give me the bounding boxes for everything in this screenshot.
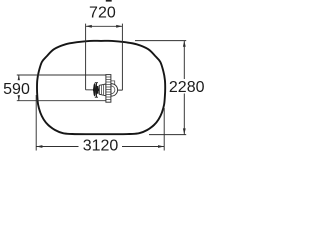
faucet bonnet line 2 [103,84,105,95]
dimension 590 text [3,80,32,95]
dimension 590 line [18,75,20,101]
extension line 2280 bottom [149,134,186,136]
extension line 3120 right [163,108,165,151]
faucet bell [111,84,118,97]
dimension 2280 line [183,41,185,135]
arrow 2280 bottom [183,128,186,134]
arrow 2280 top [183,41,186,47]
extension line 3120 left [35,95,37,151]
faucet handle stem cap top [95,82,98,84]
extension line 590 bottom [17,100,109,102]
dimension 3120 line [36,146,164,148]
faucet handle bar [93,89,99,92]
svg-text:590: 590 [3,81,30,98]
faucet handle stem [95,83,97,98]
arrow 720 right [116,25,122,28]
faucet bonnet [99,84,106,96]
faucet bonnet line 1 [100,85,102,95]
arrow 720 left [86,25,92,28]
extension line 590 top [17,74,106,76]
svg-text:2280: 2280 [169,79,205,96]
faucet threaded shank [106,75,111,103]
arrow 3120 right [158,145,164,148]
svg-text:720: 720 [89,4,116,21]
top edge cropped stub [106,0,112,2]
dimension 3120 text [79,138,123,152]
arrow 590 top [17,75,20,81]
faucet axis line [86,89,123,91]
faucet handle stem cap bottom [95,96,98,98]
faucet handle disc [93,83,96,96]
arrow 3120 left [36,145,42,148]
arrow 590 bottom [17,95,20,101]
faucet handle hub [96,86,99,94]
extension line 720 right [121,24,123,91]
faucet bell flange [111,81,115,86]
dimension 2280 text [169,79,207,94]
dimension 720 line [86,25,123,27]
extension line 720 left [85,24,87,90]
bathtub outline [37,41,165,134]
svg-text:3120: 3120 [83,137,119,154]
extension line 2280 top [135,40,186,42]
faucet bell inner [111,86,115,94]
